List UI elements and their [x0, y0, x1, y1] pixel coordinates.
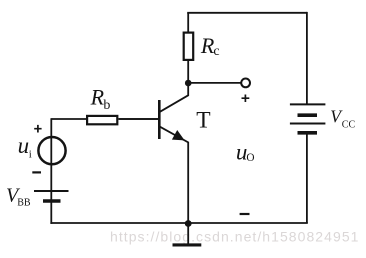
svg-text:i: i: [29, 149, 32, 161]
battery VCC plate long lower: [290, 123, 326, 125]
label plus output: [242, 95, 250, 103]
battery VBB plate short: [43, 199, 61, 203]
battery VCC plate short upper: [298, 113, 318, 117]
svg-text:O: O: [246, 152, 254, 164]
resistor Rb: [87, 116, 117, 124]
battery VCC plate short lower: [298, 131, 318, 135]
battery VCC plate long upper: [290, 103, 326, 105]
wire Rb right lead: [119, 118, 159, 120]
battery VBB plate long: [34, 190, 69, 192]
output terminal open circle: [241, 79, 250, 88]
label minus ui: [32, 171, 41, 173]
wire top horizontal: [187, 12, 307, 14]
svg-text:b: b: [103, 98, 110, 113]
svg-text:R: R: [90, 85, 105, 110]
transistor T base bar: [158, 100, 161, 139]
transistor T collector lead: [160, 83, 188, 112]
svg-text:CC: CC: [342, 120, 356, 131]
wire right vertical lower: [306, 133, 308, 223]
resistor Rc: [184, 33, 194, 60]
label plus ui: [34, 125, 41, 133]
wire left vertical: [50, 118, 52, 224]
node collector junction: [185, 80, 192, 87]
svg-text:BB: BB: [17, 198, 31, 209]
wire bottom horizontal: [50, 222, 307, 224]
wire right vertical upper: [306, 12, 308, 104]
wire Rc top lead: [187, 13, 189, 32]
ground bar: [173, 243, 202, 246]
wire Rc bottom lead: [187, 60, 189, 83]
transistor T emitter lead with arrow: [160, 127, 188, 223]
svg-text:u: u: [18, 133, 30, 158]
label minus output: [240, 213, 250, 215]
svg-text:c: c: [213, 44, 219, 59]
ground stub: [187, 223, 189, 244]
wire Rb left lead: [51, 118, 87, 120]
svg-text:T: T: [196, 107, 210, 133]
wire base lead: [119, 118, 159, 120]
source ui circle: [38, 137, 65, 164]
svg-text:https://blog.csdn.net/h1580824: https://blog.csdn.net/h1580824951: [110, 228, 360, 244]
wire output horizontal: [188, 82, 241, 84]
node emitter bottom junction: [185, 220, 192, 227]
